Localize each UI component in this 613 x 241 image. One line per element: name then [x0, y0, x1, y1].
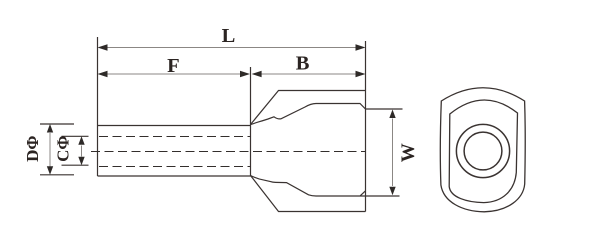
svg-text:L: L	[222, 25, 236, 47]
svg-text:CΦ: CΦ	[53, 136, 72, 162]
svg-text:F: F	[167, 55, 180, 77]
svg-text:DΦ: DΦ	[23, 136, 42, 162]
svg-text:W: W	[398, 143, 419, 162]
svg-text:B: B	[296, 53, 310, 75]
